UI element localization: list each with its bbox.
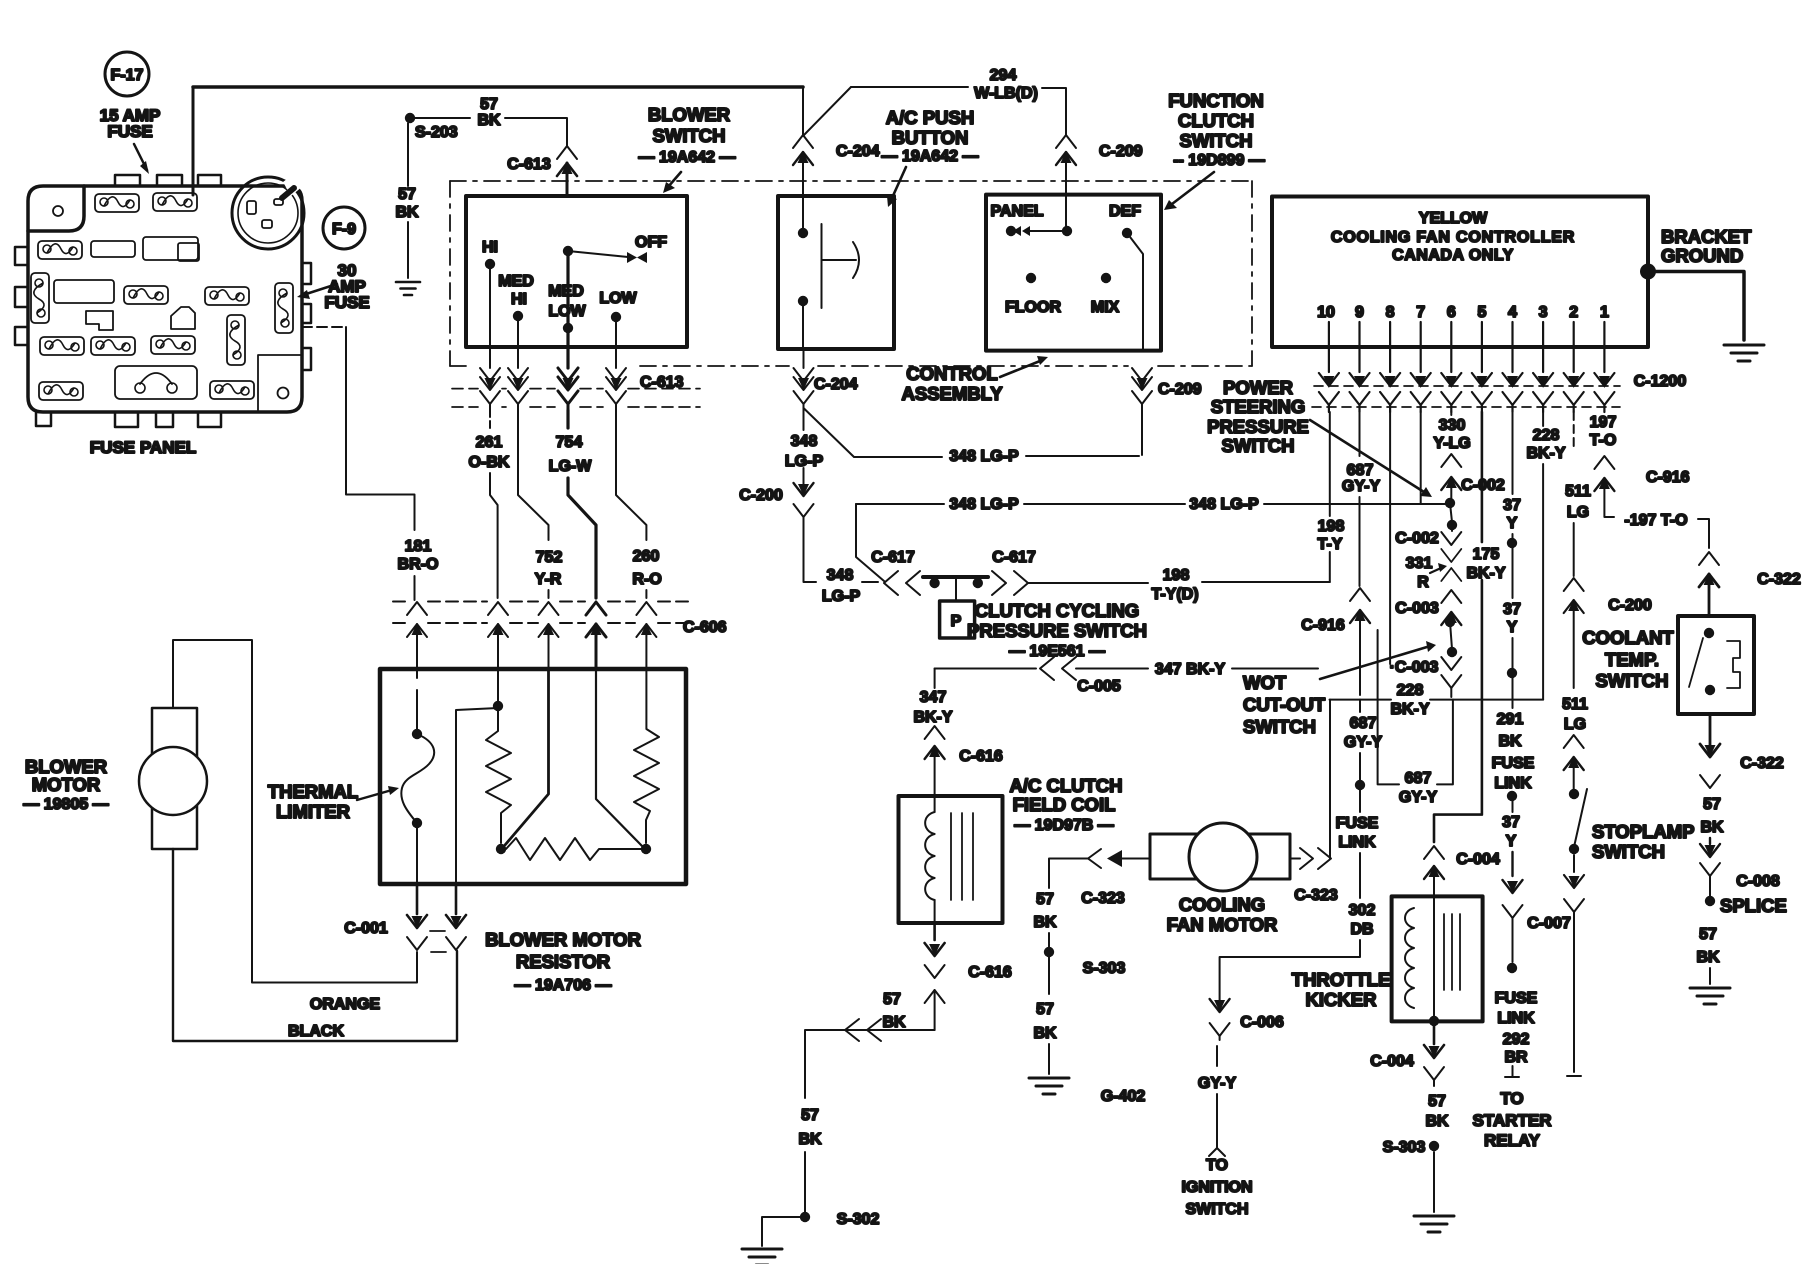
connector C-200 left <box>739 468 813 517</box>
svg-text:BLACK: BLACK <box>288 1023 344 1040</box>
wire 348 LG-P from C-204 <box>785 408 1142 470</box>
svg-text:A/C CLUTCH: A/C CLUTCH <box>1009 775 1122 796</box>
wire 261 O-BK <box>469 410 510 598</box>
connector C-209 lower <box>1132 368 1202 410</box>
svg-text:COOLING: COOLING <box>1179 894 1265 915</box>
svg-text:S-203: S-203 <box>415 124 458 141</box>
svg-text:HI: HI <box>511 291 527 308</box>
blower motor resistor box 19A706 <box>380 669 686 884</box>
svg-text:MIX: MIX <box>1091 299 1120 316</box>
svg-text:FUSE: FUSE <box>1495 990 1538 1007</box>
fuse holder plain mid <box>54 280 114 303</box>
svg-text:BK: BK <box>477 112 501 129</box>
wire 347 BK-Y horizontal <box>935 661 1318 678</box>
svg-text:348: 348 <box>791 433 818 450</box>
svg-text:GY-Y: GY-Y <box>1342 478 1381 495</box>
svg-text:HI: HI <box>482 239 498 256</box>
label CONTROL ASSEMBLY <box>901 356 1048 404</box>
svg-text:347 BK-Y: 347 BK-Y <box>1155 661 1226 678</box>
svg-text:37: 37 <box>1502 814 1520 831</box>
svg-text:9: 9 <box>1355 304 1364 321</box>
fuse: bottom right <box>210 381 254 399</box>
svg-text:57: 57 <box>1428 1093 1446 1110</box>
wire blower motor hot (orange side top loop) <box>173 640 417 983</box>
wire pin7 to 348 LG-P <box>1420 412 1422 503</box>
svg-text:FUSE PANEL: FUSE PANEL <box>90 438 196 457</box>
svg-text:PANEL: PANEL <box>990 203 1043 220</box>
blower switch box 19A642 <box>466 196 687 347</box>
svg-text:197: 197 <box>1590 414 1617 431</box>
label BLOWER MOTOR RESISTOR <box>485 929 641 994</box>
svg-text:C-916: C-916 <box>1646 469 1690 486</box>
svg-text:RELAY: RELAY <box>1484 1131 1541 1150</box>
svg-text:294: 294 <box>990 67 1017 84</box>
svg-text:1: 1 <box>1600 304 1609 321</box>
fuse: row4 c <box>151 336 195 354</box>
svg-text:BR-O: BR-O <box>398 556 439 573</box>
field coil internals <box>925 796 973 923</box>
svg-text:FAN MOTOR: FAN MOTOR <box>1167 914 1278 935</box>
fuse: bottom left <box>39 382 83 400</box>
svg-text:C-007: C-007 <box>1527 915 1571 932</box>
svg-text:330: 330 <box>1439 417 1466 434</box>
svg-text:Y: Y <box>1507 515 1518 532</box>
label 181 BR-O <box>398 538 439 600</box>
svg-text:C-616: C-616 <box>968 964 1012 981</box>
svg-text:— 19805 —: — 19805 — <box>23 796 108 813</box>
thermal limiter <box>268 669 434 884</box>
wire 348 LG-P return loop to pressure switch <box>856 504 884 581</box>
fuse panel round connector <box>232 172 304 249</box>
svg-text:C-606: C-606 <box>683 619 727 636</box>
fuse F-9 30 amp vertical right <box>275 283 293 333</box>
svg-text:SWITCH: SWITCH <box>1592 841 1665 862</box>
svg-text:FLOOR: FLOOR <box>1005 299 1061 316</box>
connector C-204 lower <box>794 349 858 410</box>
svg-text:348: 348 <box>827 567 854 584</box>
F-9 callout circle <box>323 207 365 249</box>
svg-text:C-617: C-617 <box>992 549 1036 566</box>
wire S-203 down to ground <box>395 123 419 278</box>
control assembly dashed boundary <box>450 181 1252 366</box>
svg-text:FUSE: FUSE <box>107 122 152 141</box>
svg-text:SWITCH: SWITCH <box>1222 435 1295 456</box>
wire 57 BK to G-402 <box>1033 957 1057 1074</box>
svg-text:261: 261 <box>476 434 503 451</box>
connector C-916 left <box>1301 588 1370 695</box>
svg-text:687: 687 <box>1347 462 1374 479</box>
svg-text:3: 3 <box>1539 304 1548 321</box>
svg-text:LINK: LINK <box>1338 834 1376 851</box>
svg-text:C-322: C-322 <box>1740 755 1784 772</box>
svg-text:C-002: C-002 <box>1395 530 1439 547</box>
svg-text:W-LB(D): W-LB(D) <box>974 85 1038 102</box>
svg-text:— 19A706 —: — 19A706 — <box>515 977 612 994</box>
svg-text:YELLOW: YELLOW <box>1419 210 1488 227</box>
wire 57 BK to S-303 right <box>1383 1080 1449 1212</box>
wire pin9 687 GY-Y <box>1342 412 1381 586</box>
svg-text:POWER: POWER <box>1223 377 1293 398</box>
svg-text:57: 57 <box>883 991 901 1008</box>
bracket ground wire <box>1640 226 1752 340</box>
svg-text:C-008: C-008 <box>1736 873 1780 890</box>
connector C-004 lower <box>1370 1026 1444 1080</box>
fuse holder bracket small <box>86 311 113 330</box>
blower motor 19805 <box>23 708 207 849</box>
svg-text:37: 37 <box>1503 497 1521 514</box>
bus 228 BK-Y <box>1330 682 1544 718</box>
svg-text:FUNCTION: FUNCTION <box>1168 90 1264 111</box>
svg-text:SWITCH: SWITCH <box>1243 716 1316 737</box>
wire pin2 511 LG stoplamp chain <box>1562 412 1652 1076</box>
wire 57 BK from field coil to S-302 <box>798 991 934 1212</box>
wire 260 R-O <box>616 410 662 598</box>
svg-text:C-204: C-204 <box>814 376 858 393</box>
svg-text:LINK: LINK <box>1497 1010 1535 1027</box>
wire 687 GY-Y lower (pin9) to fuse link <box>1220 700 1383 1010</box>
svg-text:198: 198 <box>1318 518 1345 535</box>
svg-text:— 19E561 —: — 19E561 — <box>1009 643 1105 660</box>
svg-text:BK-Y: BK-Y <box>913 709 952 726</box>
wire 198 T-Y riser to pin 10 <box>1318 412 1345 582</box>
resistor network in box <box>456 669 659 884</box>
wire 57 BK to splice <box>1700 796 1780 896</box>
connector C-209 upper <box>1056 135 1143 194</box>
ground at C-008 <box>1690 988 1730 1004</box>
svg-text:P: P <box>951 613 962 630</box>
svg-text:KICKER: KICKER <box>1306 989 1377 1010</box>
svg-text:GY-Y: GY-Y <box>1198 1075 1237 1092</box>
svg-text:CANADA ONLY: CANADA ONLY <box>1392 247 1514 264</box>
horizontal 348 LG-P to controller <box>856 496 1446 513</box>
svg-text:FIELD COIL: FIELD COIL <box>1013 794 1116 815</box>
svg-text:175: 175 <box>1473 546 1500 563</box>
svg-text:CUT-OUT: CUT-OUT <box>1243 694 1326 715</box>
svg-text:198: 198 <box>1163 567 1190 584</box>
svg-text:BRACKET: BRACKET <box>1661 226 1752 247</box>
fuse panel small circle top-left <box>53 206 63 216</box>
label A/C CLUTCH FIELD COIL 19D97B <box>1009 775 1122 834</box>
svg-text:7: 7 <box>1416 304 1425 321</box>
wire pin4 37 Y chain <box>1472 412 1570 1150</box>
connector C-617 left <box>871 549 920 595</box>
fuse: row3 mid <box>124 286 168 304</box>
fuse: row3 right <box>205 287 249 305</box>
connector C-617 right <box>992 549 1036 595</box>
connector C-606 <box>393 602 727 669</box>
ground at S-302 <box>742 1249 782 1264</box>
svg-text:MED: MED <box>498 273 534 290</box>
svg-text:C-200: C-200 <box>739 487 783 504</box>
svg-text:302: 302 <box>1349 902 1376 919</box>
function clutch switch box 19D899 <box>986 195 1161 351</box>
svg-text:STEERING: STEERING <box>1211 396 1306 417</box>
coolant temp switch box <box>1678 616 1754 714</box>
fuse: vertical mid-right <box>227 315 245 365</box>
svg-text:LG: LG <box>1564 716 1586 733</box>
connector C-613 upper <box>507 146 577 196</box>
wire cooling fan motor right to bus <box>1290 700 1331 869</box>
label COOLANT TEMP SWITCH <box>1582 627 1674 691</box>
svg-text:GY-Y: GY-Y <box>1399 789 1438 806</box>
svg-text:CONTROL: CONTROL <box>906 363 997 384</box>
A/C push button internals <box>798 196 859 349</box>
label STOPLAMP SWITCH <box>1592 821 1694 862</box>
fuse: row2 left <box>38 241 82 259</box>
wire 57 BK to ground <box>1696 926 1720 984</box>
svg-text:C-616: C-616 <box>959 748 1003 765</box>
svg-text:PRESSURE: PRESSURE <box>1207 416 1309 437</box>
label POWER STEERING PRESSURE SWITCH <box>1207 377 1432 497</box>
svg-text:OFF: OFF <box>635 234 667 251</box>
svg-text:LG-W: LG-W <box>549 458 593 475</box>
function clutch switch internals <box>990 195 1143 351</box>
svg-text:ORANGE: ORANGE <box>310 996 381 1013</box>
svg-text:T-Y: T-Y <box>1318 536 1343 553</box>
fuse holder plain rects row2 <box>91 241 135 257</box>
svg-text:181: 181 <box>405 538 432 555</box>
svg-text:F-17: F-17 <box>111 67 144 84</box>
coolant temp switch internals <box>1689 628 1740 695</box>
wire GY-Y to ignition switch <box>1181 1046 1252 1218</box>
svg-text:BK: BK <box>1033 914 1057 931</box>
fuse F-17 15 amp in panel <box>153 193 197 211</box>
svg-text:S-303: S-303 <box>1383 1139 1426 1156</box>
connector C-322 lower <box>1700 714 1784 788</box>
wire 294 W-LB(D) branch <box>803 67 1066 136</box>
svg-text:S-302: S-302 <box>837 1211 880 1228</box>
svg-text:SWITCH: SWITCH <box>1596 670 1669 691</box>
A/C clutch field coil box 19D97B <box>899 796 1003 923</box>
wire 347 BK-Y drop to field coil <box>913 669 952 727</box>
svg-text:G-402: G-402 <box>1101 1088 1146 1105</box>
wire 752 Y-R <box>518 410 562 598</box>
label 330 Y-LG and connector chain C-002/C-003 pin6 <box>1390 412 1506 697</box>
clutch cycling pressure switch 19E561 <box>923 577 1147 660</box>
ground at S-203 <box>396 282 420 295</box>
svg-text:BR: BR <box>1504 1049 1528 1066</box>
wire pin8 stub <box>1389 412 1391 664</box>
svg-text:COOLANT: COOLANT <box>1582 627 1674 648</box>
svg-text:LIMITER: LIMITER <box>276 801 350 822</box>
svg-text:TEMP.: TEMP. <box>1605 649 1659 670</box>
cooling fan motor <box>1150 823 1290 935</box>
fuse panel tabs <box>15 175 311 427</box>
svg-text:37: 37 <box>1503 601 1521 618</box>
throttle kicker box <box>1392 896 1483 1021</box>
wire pin3 228 BK-Y <box>1526 412 1565 700</box>
svg-text:R-O: R-O <box>632 571 661 588</box>
svg-text:BK: BK <box>1033 1025 1057 1042</box>
fuse holder pentagon <box>171 307 195 329</box>
svg-text:C-916: C-916 <box>1301 617 1345 634</box>
svg-text:COOLING FAN CONTROLLER: COOLING FAN CONTROLLER <box>1331 229 1575 246</box>
splice C-008 <box>1705 895 1787 916</box>
svg-text:57: 57 <box>1036 1001 1054 1018</box>
label 348 LG-P lower left <box>822 567 861 605</box>
svg-text:STOPLAMP: STOPLAMP <box>1592 821 1694 842</box>
fuse: row4 b <box>91 337 135 355</box>
splice S-303 left <box>1044 947 1126 977</box>
wire pin5 feed to throttle kicker <box>1434 412 1482 842</box>
fuse: left vertical <box>31 273 49 323</box>
svg-text:C-617: C-617 <box>871 549 915 566</box>
svg-text:BK: BK <box>1425 1113 1449 1130</box>
svg-text:— 19A642 —: — 19A642 — <box>882 148 979 165</box>
svg-text:DEF: DEF <box>1109 203 1141 220</box>
svg-text:C-003: C-003 <box>1395 600 1439 617</box>
svg-text:-- 19D899 —: -- 19D899 — <box>1173 152 1265 169</box>
svg-text:57: 57 <box>1036 891 1054 908</box>
svg-text:BK-Y: BK-Y <box>1466 565 1505 582</box>
connector C-001 <box>344 884 466 952</box>
fuse panel F-17 callout circle <box>105 52 149 96</box>
splice S-203 <box>405 113 458 141</box>
throttle kicker internals <box>1405 896 1460 1026</box>
svg-text:Y-R: Y-R <box>535 571 562 588</box>
ground G-402 <box>1029 1078 1145 1105</box>
svg-text:C-322: C-322 <box>1757 571 1801 588</box>
svg-text:— 19D97B —: — 19D97B — <box>1014 817 1114 834</box>
svg-text:331: 331 <box>1406 555 1433 572</box>
svg-text:SWITCH: SWITCH <box>1185 1201 1248 1218</box>
svg-text:C-200: C-200 <box>1608 597 1652 614</box>
svg-text:C-006: C-006 <box>1240 1014 1284 1031</box>
svg-text:O-BK: O-BK <box>469 454 510 471</box>
svg-text:STARTER: STARTER <box>1472 1111 1551 1130</box>
svg-text:BLOWER MOTOR: BLOWER MOTOR <box>485 929 641 950</box>
svg-text:260: 260 <box>633 548 660 565</box>
wire C-204 drop from top bus <box>802 87 804 135</box>
svg-text:C-323: C-323 <box>1081 890 1125 907</box>
svg-text:Y: Y <box>1506 833 1517 850</box>
svg-text:C-004: C-004 <box>1456 851 1500 868</box>
ground at S-303 right <box>1414 1216 1454 1232</box>
fuse: big bottom <box>115 366 197 399</box>
svg-text:BUTTON: BUTTON <box>892 127 969 148</box>
wire 198 T-Y(D) <box>1028 567 1330 603</box>
wire 30A fuse to 181 BR-O <box>302 327 415 530</box>
svg-text:SWITCH: SWITCH <box>1180 130 1253 151</box>
svg-text:THERMAL: THERMAL <box>268 781 358 802</box>
label A/C PUSH BUTTON 19A642 <box>882 107 979 207</box>
connector C-613 lower row <box>452 347 700 410</box>
connector C-1200 <box>1312 322 1686 412</box>
connector C-006 <box>1210 999 1284 1040</box>
svg-text:TO: TO <box>1500 1089 1523 1108</box>
svg-text:Y: Y <box>1507 619 1518 636</box>
wire 348 LG-P down to C-617 <box>804 517 879 582</box>
svg-text:2: 2 <box>1569 304 1578 321</box>
svg-text:FUSE: FUSE <box>1336 815 1379 832</box>
label BLOWER SWITCH 19A642 <box>639 104 736 193</box>
svg-text:752: 752 <box>536 549 563 566</box>
label 15 AMP FUSE <box>100 106 161 174</box>
label WOT CUT-OUT SWITCH <box>1243 641 1436 737</box>
svg-text:MOTOR: MOTOR <box>32 774 101 795</box>
connector C-005 <box>1040 657 1121 695</box>
svg-text:·C-003: ·C-003 <box>1390 659 1439 676</box>
svg-text:BK: BK <box>882 1014 906 1031</box>
svg-text:C-209: C-209 <box>1099 143 1143 160</box>
ground bracket symbol <box>1724 345 1764 361</box>
wire 754 LG-W (med-low, heavy) <box>568 410 596 598</box>
svg-text:348 LG-P: 348 LG-P <box>949 448 1019 465</box>
svg-text:LINK: LINK <box>1494 775 1532 792</box>
svg-text:FUSE: FUSE <box>324 293 369 312</box>
svg-text:A/C PUSH: A/C PUSH <box>886 107 974 128</box>
svg-text:WOT: WOT <box>1243 672 1287 693</box>
fuse: panel row1 left <box>95 194 139 212</box>
connector C-004 upper <box>1424 846 1500 896</box>
svg-text:228: 228 <box>1533 427 1560 444</box>
svg-text:FUSE: FUSE <box>1492 755 1535 772</box>
svg-text:BK: BK <box>395 204 419 221</box>
svg-text:S-303: S-303 <box>1083 960 1126 977</box>
svg-text:TO: TO <box>1206 1157 1228 1174</box>
svg-text:BK: BK <box>798 1131 822 1148</box>
svg-text:511: 511 <box>1562 696 1588 713</box>
svg-text:687: 687 <box>1405 770 1432 787</box>
svg-text:291: 291 <box>1497 711 1524 728</box>
svg-text:511: 511 <box>1565 483 1591 500</box>
wire cooling fan motor left 57 BK <box>1033 849 1337 947</box>
svg-text:LG-P: LG-P <box>822 588 861 605</box>
svg-text:C-323: C-323 <box>1294 887 1338 904</box>
connector C-616 upper <box>925 726 1003 796</box>
svg-text:687: 687 <box>1350 715 1377 732</box>
wire from 15A fuse to top bus <box>192 87 195 195</box>
svg-text:C-005: C-005 <box>1077 678 1121 695</box>
svg-text:6: 6 <box>1447 304 1456 321</box>
blower switch internals <box>482 234 667 347</box>
svg-text:347: 347 <box>920 689 947 706</box>
svg-text:GROUND: GROUND <box>1661 245 1743 266</box>
svg-text:228: 228 <box>1397 682 1424 699</box>
connector C-322 upper <box>1699 552 1801 616</box>
A/C push button box 19A642 <box>778 196 894 349</box>
svg-text:Y-LG: Y-LG <box>1433 435 1470 452</box>
splice S-302 <box>762 1211 879 1246</box>
svg-text:754: 754 <box>556 434 583 451</box>
svg-text:C-004: C-004 <box>1370 1053 1414 1070</box>
svg-text:C-204: C-204 <box>836 143 880 160</box>
svg-text:F-9: F-9 <box>332 221 356 238</box>
svg-text:57: 57 <box>1703 796 1721 813</box>
svg-text:57: 57 <box>1699 926 1717 943</box>
svg-text:BK-Y: BK-Y <box>1390 701 1429 718</box>
wire 687 GY-Y jog from bus <box>1378 630 1453 806</box>
svg-text:T-O: T-O <box>1590 432 1617 449</box>
svg-text:57: 57 <box>398 186 416 203</box>
svg-text:SWITCH: SWITCH <box>653 125 726 146</box>
svg-text:57: 57 <box>480 96 498 113</box>
wire 57 BK from S-203 <box>415 96 567 146</box>
wire top bus 15A feed to C-204 <box>193 85 803 89</box>
svg-text:T-Y(D): T-Y(D) <box>1151 586 1198 603</box>
connector C-616 lower <box>925 923 1012 1030</box>
label FUNCTION CLUTCH SWITCH 19D899 <box>1164 90 1265 210</box>
connector C-204 upper <box>793 135 880 196</box>
yellow cooling fan controller box <box>1272 197 1648 348</box>
svg-text:348 LG-P: 348 LG-P <box>1189 496 1259 513</box>
fuse panel corner compartment <box>258 355 302 410</box>
svg-text:BK: BK <box>1700 819 1724 836</box>
svg-text:SPLICE: SPLICE <box>1720 895 1787 916</box>
svg-text:8: 8 <box>1386 304 1395 321</box>
svg-text:LG: LG <box>1567 504 1589 521</box>
svg-text:10: 10 <box>1317 304 1335 321</box>
